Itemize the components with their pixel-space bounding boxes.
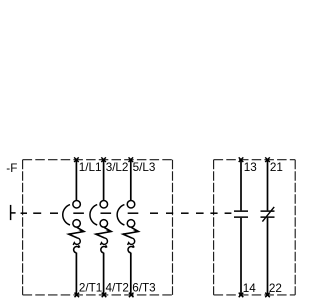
svg-text:-F: -F xyxy=(6,162,17,175)
wire top pole3 xyxy=(130,160,132,200)
terminal X bottom pole2 xyxy=(102,293,107,298)
breaker contact pole2: arc xyxy=(90,205,97,225)
manual actuator symbol xyxy=(11,205,16,220)
terminal X top pole3 xyxy=(129,157,134,162)
magnetic release zigzag pole2 xyxy=(96,227,111,238)
terminal X bottom aux14 xyxy=(239,293,244,298)
svg-text:5/L3: 5/L3 xyxy=(133,161,156,174)
wire top aux21 xyxy=(267,160,269,211)
NC contact slash xyxy=(262,207,274,222)
wire bottom aux22 xyxy=(267,218,269,295)
mechanical coupling dashed line xyxy=(21,212,232,214)
svg-text:6/T3: 6/T3 xyxy=(132,281,155,294)
terminal X top aux13 xyxy=(239,157,244,162)
wire bottom pole2 xyxy=(103,253,105,295)
terminal X bottom pole1 xyxy=(75,293,80,298)
enclosure right box xyxy=(214,160,296,295)
svg-text:1/L1: 1/L1 xyxy=(79,161,102,174)
svg-text:21: 21 xyxy=(270,161,283,174)
svg-text:4/T2: 4/T2 xyxy=(106,281,129,294)
breaker contact pole3: arc xyxy=(117,205,124,225)
svg-text:3/L2: 3/L2 xyxy=(106,161,129,174)
wire bottom pole3 xyxy=(130,253,132,295)
terminal X top pole1 xyxy=(74,157,79,162)
breaker contact pole2: lower circle xyxy=(100,220,108,228)
svg-text:2/T1: 2/T1 xyxy=(79,281,102,294)
thermal release hooks pole1 xyxy=(73,238,80,245)
wire bottom aux14 xyxy=(240,218,242,295)
enclosure left box xyxy=(23,160,173,295)
breaker contact pole1: arc xyxy=(63,205,70,225)
NO contact plates xyxy=(234,211,248,217)
thermal release hooks pole2 xyxy=(100,238,107,245)
wire top pole2 xyxy=(103,160,105,200)
breaker contact pole1: lower circle xyxy=(73,220,81,228)
thermal release hooks pole3 xyxy=(128,238,135,245)
breaker contact pole3: lower circle xyxy=(127,220,135,228)
terminal X top pole2 xyxy=(101,157,106,162)
terminal X bottom aux22 xyxy=(265,293,270,298)
wire top pole1 xyxy=(75,160,77,200)
terminal X bottom pole3 xyxy=(129,293,134,298)
svg-text:14: 14 xyxy=(243,282,257,295)
svg-text:13: 13 xyxy=(244,161,257,174)
terminal X top aux21 xyxy=(265,157,270,162)
breaker contact pole3: upper circle xyxy=(127,200,135,208)
breaker contact pole2: upper circle xyxy=(100,200,108,208)
wire bottom pole1 xyxy=(75,253,77,295)
magnetic release zigzag pole3 xyxy=(123,227,138,238)
wire top aux13 xyxy=(240,160,242,211)
magnetic release zigzag pole1 xyxy=(69,227,84,238)
svg-text:22: 22 xyxy=(269,282,282,295)
NC contact plates xyxy=(261,211,275,217)
breaker contact pole1: upper circle xyxy=(73,200,81,208)
